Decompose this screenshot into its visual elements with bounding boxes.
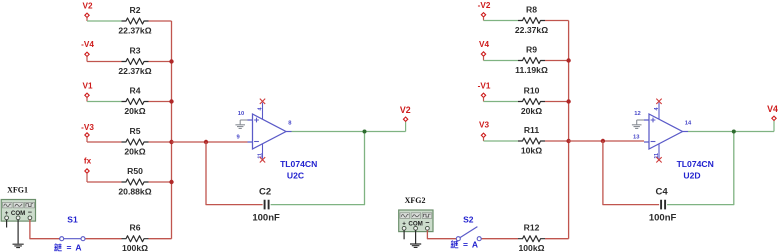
switch S1 (closed) bbox=[60, 237, 85, 241]
svg-text:C4: C4 bbox=[656, 187, 669, 198]
wire bbox=[405, 122, 407, 132]
wire bbox=[87, 61, 122, 63]
wire (pin 10 to ground) bbox=[240, 119, 247, 121]
svg-text:A: A bbox=[472, 240, 478, 250]
junction bbox=[732, 130, 736, 134]
resistor R3 bbox=[122, 59, 149, 65]
terminal -V3 bbox=[85, 133, 89, 137]
wire bbox=[545, 238, 569, 240]
svg-text:R3: R3 bbox=[130, 45, 141, 55]
svg-text:100kΩ: 100kΩ bbox=[518, 243, 544, 252]
svg-text:fx: fx bbox=[84, 157, 92, 166]
svg-text:XFG1: XFG1 bbox=[7, 186, 28, 195]
svg-text:100nF: 100nF bbox=[252, 213, 280, 224]
svg-text:20kΩ: 20kΩ bbox=[124, 106, 145, 116]
power pin 11 (V-) of U2D bbox=[654, 144, 660, 159]
terminal -V1 bbox=[481, 93, 485, 97]
capacitor C2 bbox=[265, 200, 269, 210]
svg-text:22.37kΩ: 22.37kΩ bbox=[118, 66, 151, 76]
svg-text:R10: R10 bbox=[524, 85, 540, 95]
junction bbox=[566, 99, 570, 103]
resistor R5 bbox=[122, 139, 149, 145]
terminal -V4 bbox=[85, 52, 89, 56]
no-connect X on pin 11 bbox=[656, 157, 661, 162]
svg-text:10: 10 bbox=[238, 111, 244, 117]
wire bbox=[484, 20, 519, 22]
wire bbox=[483, 138, 485, 141]
junction bbox=[204, 140, 208, 144]
svg-text:TL074CN: TL074CN bbox=[280, 159, 317, 169]
wire bbox=[87, 101, 122, 103]
svg-text:U2C: U2C bbox=[287, 171, 304, 181]
wire bbox=[149, 61, 172, 63]
wire bbox=[545, 20, 569, 22]
ground (XFG2) bbox=[410, 244, 421, 247]
wire bbox=[87, 181, 122, 183]
function generator XFG2 bbox=[399, 196, 433, 232]
wire bbox=[86, 98, 88, 102]
wire bbox=[484, 101, 519, 103]
wire bbox=[545, 60, 569, 62]
svg-text:XFG2: XFG2 bbox=[405, 196, 426, 205]
svg-text:R5: R5 bbox=[130, 126, 141, 136]
terminal V4 bbox=[481, 52, 485, 56]
svg-text:−: − bbox=[425, 218, 429, 227]
svg-text:V4: V4 bbox=[479, 40, 489, 49]
wire (feedback) bbox=[271, 132, 365, 205]
capacitor C4 bbox=[661, 200, 665, 210]
terminal fx bbox=[85, 169, 89, 173]
wire bbox=[149, 141, 172, 143]
svg-text:-V4: -V4 bbox=[81, 40, 94, 49]
svg-text:4: 4 bbox=[654, 108, 660, 111]
svg-text:S2: S2 bbox=[463, 214, 474, 224]
wire bbox=[427, 230, 456, 239]
wire bbox=[87, 20, 122, 22]
wire bbox=[149, 101, 172, 103]
resistor R6 bbox=[122, 236, 149, 242]
svg-text:S1: S1 bbox=[67, 214, 78, 224]
svg-text:V3: V3 bbox=[479, 121, 489, 130]
svg-text:R8: R8 bbox=[526, 4, 537, 14]
wire (feedback) bbox=[603, 141, 659, 205]
wire bbox=[149, 181, 172, 183]
ground at + input of U2C bbox=[235, 120, 245, 128]
svg-text:R4: R4 bbox=[130, 85, 141, 95]
wire (XFG1 COM to ground) bbox=[17, 220, 19, 244]
wire (feedback) bbox=[206, 142, 263, 205]
ground (XFG1) bbox=[13, 244, 24, 247]
wire bbox=[30, 220, 60, 239]
terminal V3 bbox=[481, 133, 485, 137]
wire (XFG1 + stub) bbox=[6, 220, 8, 228]
svg-text:10kΩ: 10kΩ bbox=[521, 145, 542, 155]
resistor R50 bbox=[122, 179, 149, 185]
svg-text:100nF: 100nF bbox=[649, 213, 677, 224]
svg-text:V2: V2 bbox=[400, 105, 411, 115]
wire (XFG2 + stub) bbox=[403, 230, 405, 239]
switch S2 (open) bbox=[456, 227, 481, 241]
wire (feedback) bbox=[667, 132, 734, 205]
wire (U2D output) bbox=[688, 131, 774, 133]
svg-text:R12: R12 bbox=[524, 223, 540, 233]
wire bbox=[545, 101, 569, 103]
wire (summing bus) bbox=[171, 21, 173, 239]
svg-text:V1: V1 bbox=[82, 81, 92, 90]
wire bbox=[545, 140, 569, 142]
svg-text:22.37kΩ: 22.37kΩ bbox=[118, 25, 151, 35]
svg-text:R2: R2 bbox=[130, 5, 141, 15]
wire bbox=[86, 173, 88, 182]
terminal V2 (output) bbox=[403, 117, 407, 121]
terminal V1 bbox=[85, 93, 89, 97]
resistor R8 bbox=[518, 18, 545, 24]
svg-text:12: 12 bbox=[634, 111, 640, 117]
wire bbox=[483, 56, 485, 60]
svg-text:R9: R9 bbox=[526, 44, 537, 54]
wire bbox=[484, 140, 519, 142]
wire (U2C output) bbox=[292, 131, 406, 133]
wire bbox=[86, 18, 88, 21]
function generator XFG1 bbox=[1, 186, 35, 222]
wire bbox=[149, 20, 172, 22]
no-connect X on pin 4 bbox=[260, 99, 265, 104]
wire bbox=[484, 60, 519, 62]
wire (pin 12 to ground) bbox=[637, 119, 644, 121]
junction bbox=[566, 139, 570, 143]
junction bbox=[169, 140, 173, 144]
svg-text:20kΩ: 20kΩ bbox=[124, 146, 145, 156]
svg-text:=: = bbox=[67, 243, 72, 252]
svg-text:20kΩ: 20kΩ bbox=[521, 106, 542, 116]
svg-text:TL074CN: TL074CN bbox=[677, 159, 714, 169]
svg-text:13: 13 bbox=[633, 134, 640, 140]
wire bbox=[86, 137, 88, 142]
wire bbox=[483, 98, 485, 102]
svg-text:R50: R50 bbox=[127, 166, 143, 176]
svg-text:-V1: -V1 bbox=[478, 81, 491, 90]
junction bbox=[169, 180, 173, 184]
svg-text:V4: V4 bbox=[767, 104, 778, 114]
no-connect X on pin 11 bbox=[260, 157, 265, 162]
svg-text:R6: R6 bbox=[130, 223, 141, 233]
svg-text:C2: C2 bbox=[259, 187, 271, 198]
resistor R10 bbox=[518, 99, 545, 105]
svg-text:=: = bbox=[463, 240, 468, 250]
wire bbox=[481, 238, 518, 240]
terminal V2 bbox=[85, 13, 89, 17]
svg-text:U2D: U2D bbox=[683, 171, 700, 181]
resistor R9 bbox=[518, 58, 545, 64]
wire bbox=[87, 141, 122, 143]
terminal -V2 bbox=[481, 13, 485, 17]
svg-text:100kΩ: 100kΩ bbox=[122, 243, 148, 252]
no-connect X on pin 4 bbox=[656, 99, 661, 104]
resistor R12 bbox=[518, 236, 545, 242]
svg-text:-V3: -V3 bbox=[81, 123, 94, 132]
wire bbox=[86, 57, 88, 62]
svg-text:14: 14 bbox=[685, 121, 692, 127]
terminal V4 (output) bbox=[772, 116, 776, 120]
wire bbox=[149, 238, 172, 240]
svg-text:22.37kΩ: 22.37kΩ bbox=[515, 25, 548, 35]
svg-text:R11: R11 bbox=[524, 125, 540, 135]
svg-text:V2: V2 bbox=[82, 1, 92, 10]
resistor R2 bbox=[122, 18, 149, 24]
wire (summing bus 2) bbox=[568, 21, 570, 239]
svg-text:-V2: -V2 bbox=[478, 1, 491, 10]
label key = A (S1) bbox=[54, 243, 81, 252]
junction bbox=[169, 99, 173, 103]
label key = A (S2) bbox=[451, 240, 478, 250]
wire (XFG2 COM to ground) bbox=[415, 230, 417, 243]
ground at + input of U2D bbox=[632, 120, 642, 128]
svg-text:4: 4 bbox=[257, 108, 263, 111]
resistor R11 bbox=[518, 138, 545, 144]
resistor R4 bbox=[122, 99, 149, 105]
power pin 4 (V+) of U2D bbox=[654, 103, 660, 120]
svg-text:11.19kΩ: 11.19kΩ bbox=[515, 65, 548, 75]
wire (bus to U2D pin 13) bbox=[569, 140, 644, 142]
op-amp U2D bbox=[644, 114, 688, 149]
svg-text:−: − bbox=[28, 208, 32, 217]
wire bbox=[483, 17, 485, 20]
op-amp U2C bbox=[248, 114, 292, 149]
wire bbox=[85, 238, 122, 240]
power pin 11 (V-) of U2C bbox=[257, 144, 263, 159]
junction bbox=[566, 58, 570, 62]
junction bbox=[363, 130, 367, 134]
junction bbox=[169, 59, 173, 63]
svg-text:20.88kΩ: 20.88kΩ bbox=[118, 186, 151, 196]
power pin 4 (V+) of U2C bbox=[257, 103, 263, 120]
wire (bus to U2C pin 9) bbox=[172, 141, 248, 143]
junction bbox=[601, 139, 605, 143]
svg-text:A: A bbox=[75, 243, 81, 252]
wire bbox=[773, 121, 775, 132]
